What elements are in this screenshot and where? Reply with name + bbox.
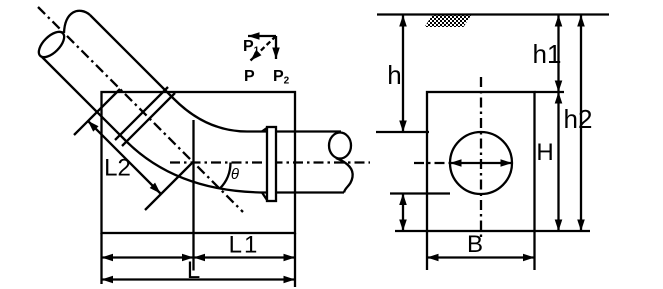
svg-text:θ: θ (231, 166, 239, 183)
svg-text:h2: h2 (564, 104, 593, 134)
svg-text:h1: h1 (533, 39, 562, 69)
svg-text:L1: L1 (229, 232, 260, 259)
svg-text:B: B (467, 231, 483, 258)
svg-text:L: L (187, 257, 200, 284)
svg-text:P1: P1 (243, 38, 260, 57)
svg-text:h: h (387, 60, 401, 90)
svg-text:P: P (244, 68, 255, 85)
svg-text:P2: P2 (273, 68, 290, 87)
svg-text:H: H (536, 139, 553, 166)
svg-text:L2: L2 (104, 155, 131, 182)
